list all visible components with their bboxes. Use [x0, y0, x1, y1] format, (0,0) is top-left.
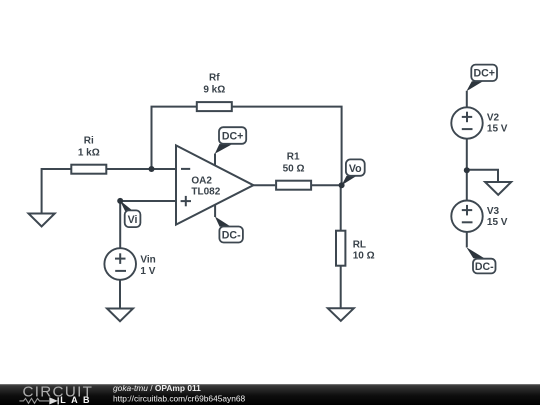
wire V3 bottom to DC- [466, 232, 468, 248]
svg-text:R1: R1 [287, 152, 300, 163]
node junction right column [464, 167, 470, 173]
wire DC+ stub at op-amp [214, 154, 216, 166]
ground under RL [328, 308, 354, 321]
svg-text:V2: V2 [487, 112, 500, 123]
resistor Ri [71, 165, 106, 174]
wire RL to ground [340, 267, 342, 309]
svg-text:50 Ω: 50 Ω [283, 164, 305, 175]
wire mid node to right ground [467, 170, 498, 182]
node junction Rf tap [149, 166, 155, 172]
svg-text:V3: V3 [487, 206, 500, 217]
wire V2 bottom to mid node [466, 139, 468, 171]
svg-text:9 kΩ: 9 kΩ [203, 84, 225, 95]
op-amp plus symbol [181, 196, 191, 206]
svg-text:15 V: 15 V [487, 123, 508, 134]
footer logo diode [49, 397, 58, 404]
wire Vin to ground [119, 280, 121, 309]
svg-text:Ri: Ri [84, 136, 94, 147]
op-amp OA2 triangle [176, 145, 253, 224]
flag DC- right column [466, 247, 495, 273]
svg-text:DC+: DC+ [473, 68, 495, 80]
ground right column [485, 182, 511, 195]
wire non-inverting input [120, 200, 176, 202]
svg-text:http://circuitlab.com/cr69b645: http://circuitlab.com/cr69b645ayn68 [113, 394, 246, 404]
svg-text:10 Ω: 10 Ω [353, 250, 375, 261]
svg-text:1 V: 1 V [140, 266, 155, 277]
flag DC+ right column [466, 65, 497, 92]
svg-text:Vo: Vo [349, 163, 362, 175]
svg-text:DC+: DC+ [222, 131, 244, 143]
svg-text:RL: RL [353, 239, 366, 250]
svg-text:Vi: Vi [128, 214, 138, 226]
wire R1 to Vo node [312, 184, 342, 186]
wire op-amp output to R1 [253, 184, 275, 186]
svg-text:OA2: OA2 [191, 176, 212, 187]
svg-text:DC-: DC- [475, 261, 494, 273]
svg-text:LAB: LAB [60, 395, 95, 405]
wire Rf feedback branch [152, 107, 342, 186]
node junction Vo [339, 182, 345, 188]
ground left [29, 214, 55, 227]
svg-text:TL082: TL082 [191, 186, 220, 197]
svg-text:goka-tmu / OPAmp 011: goka-tmu / OPAmp 011 [113, 383, 201, 393]
svg-text:Vin: Vin [140, 255, 155, 266]
resistor RL [336, 231, 345, 266]
svg-text:DC-: DC- [222, 230, 241, 242]
voltage source V2 [451, 107, 482, 138]
wire Vi node down to Vin [119, 201, 121, 248]
footer logo resistor zigzag [19, 398, 49, 403]
flag Vo [342, 159, 365, 185]
flag Vi [120, 200, 141, 227]
svg-text:1 kΩ: 1 kΩ [78, 148, 100, 159]
wire Vo node down to RL [340, 185, 342, 230]
voltage source V3 [451, 201, 482, 232]
wire DC- stub at op-amp [214, 205, 216, 217]
footer bar [0, 384, 540, 405]
voltage source Vin [104, 248, 136, 280]
flag DC- at op-amp [215, 217, 243, 243]
svg-text:Rf: Rf [209, 73, 220, 84]
wire mid node down to V3 [466, 170, 468, 200]
node junction Vi [117, 198, 123, 204]
svg-text:15 V: 15 V [487, 217, 508, 228]
wire V2 top to DC+ [466, 91, 468, 108]
wire inverting input net [42, 169, 176, 213]
flag DC+ at op-amp [215, 127, 246, 154]
op-amp minus symbol [181, 168, 190, 170]
ground under Vin [107, 309, 133, 322]
resistor R1 [276, 181, 311, 190]
resistor Rf [197, 102, 232, 111]
